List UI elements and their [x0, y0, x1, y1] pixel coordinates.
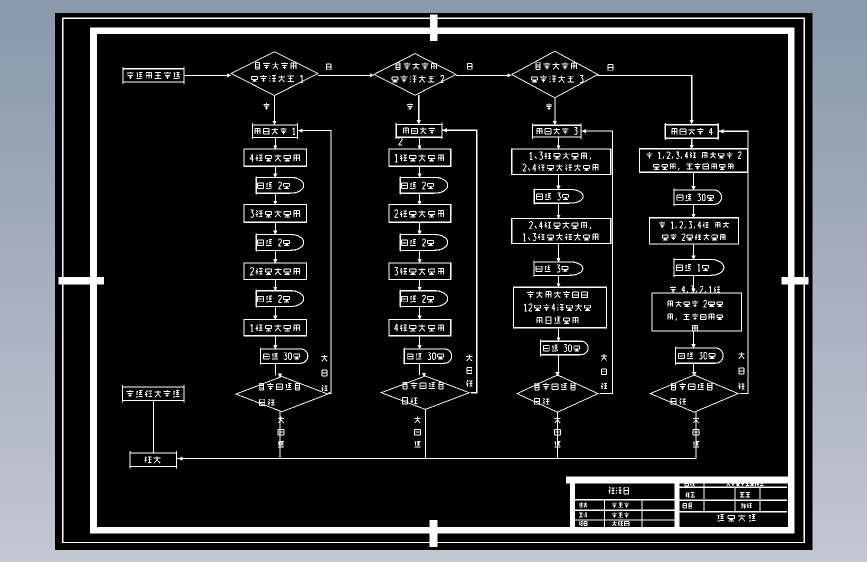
- wire loop3 back: [581, 131, 613, 394]
- diamond single-or-cont 1: [236, 377, 328, 412]
- process col3 big2: [512, 219, 611, 244]
- wire col4 to bigbox3: [693, 275, 695, 291]
- label if-single col2: [414, 417, 420, 423]
- bus wire: [177, 458, 697, 460]
- wire col2 to delay2: [419, 222, 421, 233]
- delay 1s col4: [674, 260, 724, 276]
- delay 2s col1 #2: [256, 235, 304, 251]
- process col1 1: [244, 149, 306, 166]
- label yes1: [263, 103, 269, 109]
- delay 30s col2: [404, 349, 452, 364]
- delay 2s col2 #2: [400, 235, 448, 251]
- diamond decision1: [231, 52, 318, 96]
- process col3 big3: [514, 287, 607, 328]
- process col2 1: [389, 149, 451, 166]
- title university text: [717, 515, 724, 521]
- wire col1 drop: [279, 412, 281, 459]
- label if-cont col4: [738, 352, 744, 358]
- wire diamond2 down: [418, 95, 420, 123]
- wire col4 drop: [695, 412, 697, 458]
- wire col2 to diamond: [419, 363, 421, 375]
- centering mark right: [782, 277, 809, 284]
- process col4 big2: [650, 218, 739, 244]
- wire col3 to bigbox2: [558, 203, 560, 217]
- wire diamond1 to diamond2: [318, 74, 372, 76]
- wire col1 seg1: [274, 137, 276, 148]
- process col2 4: [389, 319, 451, 335]
- wire col1 seg2: [274, 193, 276, 203]
- process col4 big1: [639, 149, 747, 173]
- wire diamond2 to diamond3: [456, 74, 510, 76]
- centering mark bottom: [430, 520, 438, 547]
- label if-single col3: [554, 417, 560, 423]
- start button box: [123, 69, 184, 82]
- diamond single-or-cont 4: [650, 375, 738, 412]
- wire col4 to delay1s: [693, 244, 695, 258]
- diamond single-or-cont 2: [381, 376, 469, 409]
- wire col2 to delay4: [419, 336, 421, 348]
- label no2: [467, 63, 472, 69]
- wire col1 to delay1: [274, 166, 276, 176]
- delay 3s col3 #1: [534, 189, 583, 203]
- title row4 labels: [579, 521, 583, 525]
- process col4 big3: [652, 293, 742, 331]
- wire col4 to diamond: [693, 363, 695, 374]
- title block top band: [566, 477, 788, 484]
- title right rowB texts: [686, 492, 690, 497]
- process execute pattern3: [532, 125, 581, 137]
- end box: [130, 453, 177, 467]
- diamond decision3: [512, 51, 598, 98]
- wire start to diamond1: [184, 74, 230, 76]
- label yes2: [407, 103, 413, 109]
- wire diamond1 down: [274, 95, 276, 124]
- outer thin border: [63, 18, 804, 542]
- label if-single col1: [278, 417, 284, 423]
- process col3 big1: [512, 149, 611, 174]
- wire col1 to diamond: [274, 363, 276, 375]
- process execute pattern2: [396, 125, 442, 138]
- label if-cont col3: [601, 354, 607, 360]
- centering mark left: [59, 277, 105, 285]
- title block left hlines: [575, 499, 674, 501]
- wire loop4 back: [718, 131, 748, 393]
- label if-single col4: [693, 417, 699, 423]
- title block divider band: [675, 484, 680, 528]
- process execute pattern1: [253, 125, 298, 137]
- wire col3 to bigbox3: [558, 275, 560, 286]
- delay 2s col2 #3: [400, 291, 448, 307]
- title text flowchart: [609, 487, 615, 493]
- wire col3 to delay30: [558, 328, 560, 341]
- wire col1 seg3: [274, 250, 276, 262]
- wire col2 drop: [424, 409, 426, 458]
- wire diamond3 down: [554, 98, 556, 124]
- wire col3 to diamond: [558, 355, 560, 374]
- title block left band: [570, 484, 575, 528]
- delay 30s col3: [541, 341, 589, 355]
- diamond decision2: [374, 54, 456, 96]
- wire loop1 back: [298, 131, 332, 394]
- wire col1 to delay2: [274, 222, 276, 233]
- wire col2 to delay3: [419, 279, 421, 289]
- label 2 below exec2: [399, 137, 402, 145]
- process col2 3: [389, 263, 451, 280]
- wire stop to end: [153, 401, 155, 454]
- delay 2s col2 #1: [400, 177, 448, 193]
- wire exec3 to bigbox1: [558, 137, 560, 148]
- label no1: [326, 64, 331, 70]
- delay 2s col1 #3: [256, 291, 304, 307]
- inner thick border: [94, 31, 792, 531]
- wire exec4 to bigbox1: [691, 138, 693, 148]
- title right hlines: [680, 486, 788, 488]
- diamond single-or-cont 3: [517, 375, 598, 412]
- wire col4 to bigbox2: [693, 205, 695, 217]
- wire col4 to delay30b: [693, 331, 695, 347]
- wire col2 seg2: [419, 193, 421, 203]
- centering mark top: [430, 15, 437, 42]
- delay 30s col4 a: [674, 190, 722, 205]
- title right vlines: [703, 484, 705, 512]
- wire col2 seg1: [419, 137, 421, 148]
- title row3 labels: [579, 513, 583, 517]
- label no3: [608, 64, 613, 70]
- wire col1 seg4: [274, 307, 276, 319]
- process col1 4: [244, 319, 306, 335]
- label if-cont col1: [321, 355, 327, 361]
- wire col3 drop: [557, 412, 559, 458]
- delay 3s col3 #2: [534, 262, 583, 276]
- process col2 2: [389, 205, 451, 223]
- wire col2 seg3: [419, 250, 421, 262]
- wire loop2 back: [442, 130, 477, 393]
- wire col2 seg4: [419, 307, 421, 319]
- wire col3 to delay1: [558, 175, 560, 189]
- wire diamond3 to exec4: [598, 75, 692, 123]
- wire col3 to delay2: [558, 244, 560, 261]
- wire col1 to delay3: [274, 279, 276, 289]
- title right rowA texts: [685, 481, 688, 485]
- wire col2 to delay1: [419, 166, 421, 176]
- label yes3: [546, 104, 552, 110]
- process col1 3: [244, 263, 306, 280]
- delay 2s col1 #1: [256, 177, 304, 193]
- wire col1 to delay4: [274, 336, 276, 348]
- delay 30s col4 b: [676, 348, 723, 363]
- process col1 2: [244, 205, 306, 223]
- stop button box: [123, 387, 185, 401]
- delay 30s col1: [260, 349, 308, 364]
- wire col4 to delay30a: [693, 172, 695, 189]
- label if-cont col2: [466, 355, 472, 361]
- title row2 labels: [579, 503, 582, 507]
- process execute pattern4: [665, 125, 718, 139]
- title block left vlines: [604, 500, 606, 527]
- title right rowC texts: [683, 503, 687, 508]
